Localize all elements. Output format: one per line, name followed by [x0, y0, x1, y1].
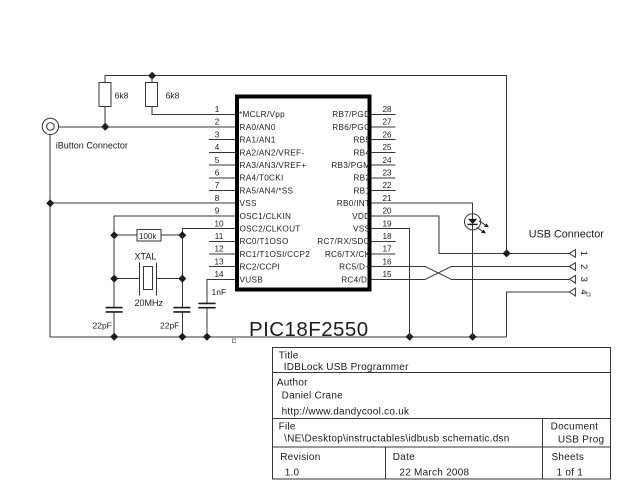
svg-text:6: 6 — [215, 169, 220, 178]
svg-text:22: 22 — [382, 181, 392, 190]
svg-text:OSC2/CLKOUT: OSC2/CLKOUT — [240, 225, 301, 234]
svg-text:Document: Document — [551, 422, 599, 433]
node: junction C3 on ground rail — [203, 333, 211, 341]
pin 23 stub — [371, 177, 395, 179]
svg-text:4: 4 — [578, 289, 589, 294]
pin 28 stub right — [371, 113, 395, 115]
svg-text:24: 24 — [382, 156, 392, 165]
USB connector J2 pin 1 arrow — [569, 250, 575, 258]
svg-text:RA3/AN3/VREF+: RA3/AN3/VREF+ — [240, 161, 307, 170]
pin 25 stub — [371, 151, 395, 153]
svg-text:13: 13 — [214, 257, 224, 266]
wire: pin 14 VUSB to C3 — [207, 279, 235, 303]
svg-text:22pF: 22pF — [93, 321, 112, 331]
wire: top pull-up rail from R1 top to right-side vertical — [105, 75, 506, 253]
svg-text:RC1/T1OSI/CCP2: RC1/T1OSI/CCP2 — [240, 250, 311, 259]
pin 22 stub — [371, 190, 395, 192]
svg-text:1: 1 — [215, 105, 220, 114]
USB connector J2 pin 4 arrow — [569, 288, 575, 296]
wire: pin 15 RC4/D- crossing up to USB pin 2 — [371, 267, 569, 280]
svg-text:Title: Title — [279, 350, 299, 361]
node: junction 100k left — [110, 231, 118, 239]
title block texts — [277, 350, 605, 478]
svg-text:100k: 100k — [139, 232, 157, 241]
svg-text:22pF: 22pF — [160, 321, 179, 331]
svg-text:8: 8 — [215, 194, 220, 203]
node: junction R1 bottom on pin2 wire — [101, 123, 109, 131]
svg-text:XTAL: XTAL — [135, 252, 157, 262]
svg-text:RC7/RX/SDO: RC7/RX/SDO — [317, 237, 370, 246]
node: junction C2 on ground rail — [178, 333, 186, 341]
wire: iButton to pin 2 (RA0/AN0) — [59, 126, 235, 128]
title block outer border — [273, 348, 611, 479]
pin 11 stub — [209, 240, 235, 242]
svg-text:7: 7 — [215, 181, 220, 190]
svg-text:Date: Date — [393, 452, 415, 463]
wire: USB pin 4 to ground rail — [507, 292, 570, 337]
svg-text:RA4/T0CKI: RA4/T0CKI — [240, 174, 284, 183]
node: junction VDD rail / pull-up rail / USB 1 — [503, 249, 511, 257]
marker: USB connector origin square — [587, 293, 590, 296]
svg-text:1: 1 — [578, 251, 589, 256]
svg-text:3: 3 — [578, 277, 589, 282]
svg-text:28: 28 — [382, 105, 392, 114]
svg-text:5: 5 — [215, 156, 220, 165]
svg-text:RA5/AN4/*SS: RA5/AN4/*SS — [240, 186, 294, 195]
svg-text:USB Prog: USB Prog — [558, 435, 604, 446]
svg-text:2: 2 — [578, 264, 589, 269]
pin 5 stub — [209, 164, 235, 166]
pin labels left inside IC — [239, 110, 310, 284]
pin 24 stub — [371, 164, 395, 166]
wire: bottom ground rail — [50, 336, 506, 338]
wire: LED cathode down to ground rail — [472, 230, 474, 337]
resistor R2 — [146, 75, 236, 114]
svg-text:VDD: VDD — [352, 212, 370, 221]
svg-text:File: File — [279, 422, 296, 433]
svg-text:USB Connector: USB Connector — [529, 228, 604, 240]
wire: pin 21 RB0/INT to LED anode — [371, 203, 472, 214]
svg-text:RC6/TX/CK: RC6/TX/CK — [325, 250, 371, 259]
svg-text:RB6/PGC: RB6/PGC — [332, 123, 370, 132]
svg-text:RB0/INT: RB0/INT — [337, 199, 371, 208]
svg-text:RC2/CCPI: RC2/CCPI — [240, 263, 281, 272]
node: junction at R2 top on pull-up rail — [148, 72, 156, 80]
LED D1 emission arrows — [477, 221, 489, 234]
wire: pin 10 OSC2/CLKOUT to right crystal rail — [182, 229, 235, 236]
svg-text:19: 19 — [382, 219, 392, 228]
svg-text:15: 15 — [382, 270, 392, 279]
svg-text:RB5: RB5 — [353, 136, 370, 145]
wire: pin 19 VSS down to ground rail — [371, 229, 409, 337]
svg-text:RC5/D+: RC5/D+ — [339, 263, 370, 272]
svg-text:14: 14 — [214, 270, 224, 279]
pin 7 stub — [209, 190, 235, 192]
svg-text:11: 11 — [215, 232, 224, 241]
resistor R1 — [99, 82, 111, 126]
svg-text:6k8: 6k8 — [115, 91, 129, 101]
title block divider under File row — [273, 446, 611, 448]
svg-text:RB4: RB4 — [353, 148, 370, 157]
wire: left crystal rail down to C1 — [113, 235, 115, 307]
wire: pin 8 VSS to left rail — [50, 202, 235, 204]
svg-text:Revision: Revision — [280, 452, 320, 463]
svg-text:RC4/D-: RC4/D- — [341, 275, 370, 284]
svg-text:RB1: RB1 — [353, 186, 370, 195]
iButton connector J1 — [42, 118, 58, 134]
pin 4 stub — [209, 151, 235, 153]
svg-text:20MHz: 20MHz — [135, 298, 164, 308]
svg-text:OSC1/CLKIN: OSC1/CLKIN — [240, 212, 292, 221]
title block vertical divider File/Document — [542, 419, 544, 448]
node: junction crystal left — [110, 275, 118, 283]
svg-text:RA1/AN1: RA1/AN1 — [240, 136, 276, 145]
svg-text:Author: Author — [277, 377, 308, 388]
svg-text:http://www.dandycool.co.uk: http://www.dandycool.co.uk — [282, 406, 410, 417]
pin 17 stub — [371, 253, 395, 255]
marker: IC origin square — [232, 339, 235, 342]
pin 13 stub — [209, 266, 235, 268]
svg-text:20: 20 — [382, 207, 392, 216]
title block divider under Author row — [273, 418, 611, 420]
pin numbers right column — [382, 105, 392, 279]
svg-text:26: 26 — [382, 130, 392, 139]
svg-text:1 of 1: 1 of 1 — [557, 467, 584, 478]
LED D1 — [465, 214, 481, 230]
svg-text:VUSB: VUSB — [240, 275, 264, 284]
pin 26 stub — [371, 139, 395, 141]
pin 12 stub — [209, 253, 235, 255]
svg-text:27: 27 — [382, 118, 392, 127]
node: junction LED cathode on ground rail — [469, 333, 477, 341]
svg-text:18: 18 — [382, 232, 392, 241]
svg-text:17: 17 — [382, 245, 392, 254]
node: junction left rail / VSS wire — [46, 199, 54, 207]
capacitor C3 1nF — [198, 303, 215, 336]
svg-text:6k8: 6k8 — [166, 91, 180, 101]
svg-text:9: 9 — [215, 207, 220, 216]
wire: pin 9 OSC1/CLKIN to left crystal rail — [114, 216, 235, 235]
svg-text:Daniel Crane: Daniel Crane — [282, 391, 344, 402]
capacitor C1 22pF — [106, 308, 123, 337]
svg-text:1.0: 1.0 — [285, 467, 300, 478]
svg-text:10: 10 — [214, 219, 224, 228]
title block vertical divider Date/Sheets — [542, 447, 544, 479]
node: junction 100k right — [178, 231, 186, 239]
node: junction crystal right — [178, 275, 186, 283]
svg-text:2: 2 — [215, 118, 220, 127]
svg-text:iButton Connector: iButton Connector — [56, 141, 128, 151]
pin 3 stub — [209, 139, 235, 141]
pin labels right inside IC — [317, 110, 370, 284]
capacitor C2 22pF — [173, 308, 190, 337]
wire: pin 20 VDD to USB pin 1 — [371, 216, 569, 254]
USB connector J2 pin 3 arrow — [569, 275, 575, 283]
svg-text:\NE\Desktop\instructables\idbu: \NE\Desktop\instructables\idbusb schemat… — [284, 434, 510, 445]
node: junction C1 on ground rail — [110, 333, 118, 341]
wire: right crystal rail down to C2 — [181, 235, 183, 307]
svg-text:23: 23 — [382, 169, 392, 178]
svg-text:21: 21 — [382, 194, 392, 203]
svg-text:VSS: VSS — [240, 199, 258, 208]
USB connector J2 pin 2 arrow — [569, 263, 575, 271]
pin 18 stub — [371, 240, 395, 242]
svg-text:*MCLR/Vpp: *MCLR/Vpp — [239, 110, 285, 119]
svg-text:RA2/AN2/VREF-: RA2/AN2/VREF- — [240, 148, 305, 157]
svg-text:22 March 2008: 22 March 2008 — [399, 467, 469, 478]
crystal X1 — [114, 262, 182, 295]
svg-text:3: 3 — [215, 130, 220, 139]
wire: left ground rail from iButton down to bottom rail — [49, 135, 51, 337]
svg-text:RA0/AN0: RA0/AN0 — [240, 123, 276, 132]
svg-text:RB2: RB2 — [353, 174, 370, 183]
svg-text:12: 12 — [214, 245, 224, 254]
pin 27 stub — [371, 126, 395, 128]
wire: pin 16 RC5/D+ crossing down to USB pin 3 — [371, 267, 569, 280]
pin numbers left column — [214, 105, 224, 279]
svg-text:16: 16 — [382, 257, 392, 266]
resistor R3 100k — [114, 230, 182, 241]
op-amp U1 body: PIC18F2550 IC outline — [237, 97, 369, 290]
pin 6 stub — [209, 177, 235, 179]
svg-text:RC0/T1OSO: RC0/T1OSO — [240, 237, 289, 246]
title block divider under Title row — [273, 371, 611, 373]
pin 1 stub left — [209, 113, 235, 115]
title block vertical divider Revision/Date — [384, 447, 386, 479]
svg-text:PIC18F2550: PIC18F2550 — [249, 318, 369, 341]
svg-text:RB3/PGM: RB3/PGM — [331, 161, 370, 170]
svg-text:IDBLock USB Programmer: IDBLock USB Programmer — [284, 362, 409, 373]
svg-text:1nF: 1nF — [212, 287, 227, 297]
svg-text:25: 25 — [382, 143, 392, 152]
svg-text:Sheets: Sheets — [552, 452, 585, 463]
svg-text:4: 4 — [215, 143, 220, 152]
svg-text:VSS: VSS — [353, 225, 371, 234]
svg-text:RB7/PGD: RB7/PGD — [332, 110, 370, 119]
node: junction VSS drop on ground rail — [406, 333, 414, 341]
